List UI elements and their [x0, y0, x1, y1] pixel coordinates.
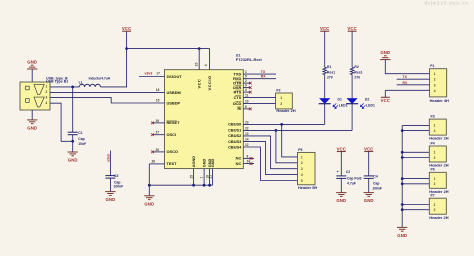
svg-text:6: 6	[245, 105, 247, 109]
wire v3v3 net at U1 3V3OUT	[139, 76, 165, 78]
wire DCD to P2 pin2	[243, 103, 275, 105]
svg-text:2: 2	[434, 78, 436, 82]
connector P7 Header 2H	[429, 198, 446, 214]
svg-text:19: 19	[156, 119, 160, 123]
connector J - USB Type B	[20, 82, 50, 110]
svg-text:GND: GND	[27, 126, 37, 131]
svg-text:Header 5H: Header 5H	[298, 185, 317, 190]
svg-text:10nF: 10nF	[78, 142, 86, 146]
svg-text:1: 1	[280, 96, 282, 100]
svg-text:GND: GND	[27, 60, 37, 65]
svg-text:GND: GND	[397, 233, 407, 238]
svg-text:25: 25	[190, 175, 194, 179]
svg-text:VCC: VCC	[337, 146, 346, 151]
svg-text:C3: C3	[114, 174, 118, 178]
svg-text:15: 15	[156, 99, 160, 103]
svg-text:R1: R1	[327, 65, 331, 69]
power VCC below P1	[381, 96, 390, 98]
svg-text:2: 2	[434, 156, 436, 160]
ground below C3	[105, 192, 115, 196]
svg-text:3: 3	[301, 167, 303, 171]
wire CBUS0 to D1	[243, 123, 324, 125]
junction ground bus	[203, 184, 206, 187]
wire VBUS to C1	[72, 87, 74, 132]
svg-text:1: 1	[46, 85, 48, 89]
svg-text:RX: RX	[403, 81, 408, 85]
svg-text:USB Type B1: USB Type B1	[46, 80, 68, 84]
junction VBUS / C1	[71, 86, 74, 89]
svg-text:26: 26	[152, 160, 156, 164]
svg-text:1: 1	[245, 70, 247, 74]
svg-text:Cap Pol3: Cap Pol3	[347, 176, 362, 180]
no-ERC mark	[250, 162, 253, 165]
junctions on right ground bus	[401, 129, 404, 132]
wire NC stub pin 8	[243, 157, 254, 159]
svg-text:5: 5	[245, 75, 247, 79]
wire RX to P1 pin3	[397, 84, 430, 86]
ground below USB connector	[27, 120, 37, 124]
svg-text:100nF: 100nF	[114, 185, 124, 189]
wire VCC rail to U1 supply pins	[127, 48, 210, 50]
svg-text:10: 10	[245, 100, 249, 104]
svg-text:L1: L1	[79, 80, 83, 84]
junction C1 / USB ground	[71, 140, 74, 143]
svg-text:P5: P5	[298, 148, 302, 152]
svg-text:P2: P2	[276, 88, 280, 92]
U1 left no-connect pin stubs 19 27 28	[153, 122, 165, 124]
svg-text:CBUS2: CBUS2	[228, 133, 242, 138]
ground below C4	[364, 193, 374, 197]
wire v3v3 to C3	[109, 151, 111, 176]
svg-text:AGND: AGND	[192, 156, 196, 167]
wire R2 to D2	[351, 75, 353, 99]
wire TEST pin stub	[149, 163, 164, 165]
svg-text:4: 4	[301, 173, 303, 177]
no-ERC mark	[249, 91, 252, 94]
no-ERC mark	[249, 108, 252, 111]
wire USB shell to ground	[31, 110, 33, 120]
wire VBUS from USB pin1 to L1	[50, 86, 79, 88]
resistor R2	[350, 67, 354, 74]
svg-text:P3: P3	[431, 114, 435, 118]
svg-text:Cap: Cap	[78, 137, 84, 141]
svg-text:VCC: VCC	[364, 146, 373, 151]
svg-text:C1: C1	[78, 131, 82, 135]
junction ground bus	[208, 184, 211, 187]
wire bus to P6 pin2	[402, 183, 429, 185]
svg-text:22: 22	[245, 126, 249, 130]
connector P4 Header 2H	[429, 146, 446, 162]
ground bottom right bus	[397, 227, 407, 231]
svg-text:2: 2	[301, 161, 303, 165]
junction CBUS0 / P5	[280, 123, 283, 126]
svg-text:v3v3: v3v3	[145, 72, 153, 76]
junction ground bus left	[148, 184, 151, 187]
svg-text:P7: P7	[431, 194, 435, 198]
svg-text:C2: C2	[346, 170, 350, 174]
svg-text:11: 11	[245, 94, 249, 98]
svg-text:16: 16	[156, 88, 160, 92]
wire CBUS1 to D2	[243, 129, 352, 131]
LED D1	[320, 98, 330, 103]
svg-text:GND: GND	[68, 158, 78, 163]
svg-text:NC: NC	[236, 161, 242, 166]
svg-text:D1: D1	[338, 97, 342, 101]
svg-text:C4: C4	[373, 174, 377, 178]
svg-text:24: 24	[247, 160, 251, 164]
no-ERC mark	[250, 157, 253, 160]
wire stub to VCC symbol	[384, 90, 386, 97]
connector P2 Header 2H	[276, 93, 293, 109]
wire VCC to P1 pin4	[385, 89, 429, 91]
wire ground to P1 pin1	[385, 60, 429, 74]
wire D1 cathode to CBUS0	[324, 104, 326, 125]
capacitor C3	[105, 176, 115, 179]
svg-text:4: 4	[204, 64, 208, 66]
connector P6 Header 2H	[429, 172, 446, 188]
svg-text:Header 4H: Header 4H	[430, 98, 449, 103]
wire RXD with RX net label	[243, 78, 276, 80]
inductor L1	[79, 84, 100, 87]
svg-text:Header 2H: Header 2H	[429, 136, 448, 141]
connector P3 Header 2H	[429, 119, 446, 135]
wire to U1 pin 20	[198, 49, 200, 70]
svg-text:21: 21	[209, 175, 213, 179]
wire R1 to D1	[324, 75, 326, 99]
svg-text:GND: GND	[203, 159, 207, 168]
svg-text:GND: GND	[380, 50, 390, 55]
wire NC stub pin 24	[243, 163, 254, 165]
U1 right pin stubs	[243, 82, 250, 84]
svg-text:Header 2H: Header 2H	[276, 108, 295, 113]
wire D2 cathode to CBUS1	[351, 104, 353, 131]
svg-text:Res1: Res1	[354, 70, 362, 74]
svg-text:7: 7	[200, 177, 204, 179]
no-ERC mark	[151, 122, 154, 125]
no-ERC mark	[249, 82, 252, 85]
connector P5 Header 5H	[298, 152, 316, 184]
wire CBUS4 to P5 pin5	[243, 147, 297, 181]
svg-text:4: 4	[434, 89, 436, 93]
svg-text:D2: D2	[365, 97, 369, 101]
svg-text:GND: GND	[144, 201, 154, 206]
capacitor C4	[364, 176, 374, 179]
svg-text:2: 2	[434, 208, 436, 212]
wire GND to USB shell pin	[31, 69, 33, 82]
wire VCC to C2	[340, 152, 342, 176]
svg-text:Header 2H: Header 2H	[429, 215, 448, 220]
wire to ground symbol below U1	[148, 185, 150, 196]
resistor R1	[323, 67, 327, 74]
svg-text:9: 9	[245, 84, 247, 88]
svg-text:v3v3: v3v3	[106, 154, 110, 162]
wire C2 to ground	[340, 178, 342, 192]
svg-text:P4: P4	[431, 141, 435, 145]
svg-text:CBUS1: CBUS1	[228, 128, 242, 133]
svg-text:20: 20	[195, 62, 199, 66]
wire VCC to R1	[324, 31, 326, 67]
svg-text:1: 1	[301, 155, 303, 159]
svg-text:2: 2	[434, 129, 436, 133]
wire VCC to C4	[368, 152, 370, 176]
svg-text:1: 1	[434, 203, 436, 207]
connector P1 Header 4H	[430, 69, 447, 97]
svg-text:VCC: VCC	[320, 26, 329, 31]
svg-text:VCC: VCC	[197, 79, 202, 89]
svg-text:8: 8	[247, 154, 249, 158]
wire to ground symbol	[72, 141, 74, 152]
svg-text:P6: P6	[431, 168, 435, 172]
svg-text:3: 3	[245, 88, 247, 92]
svg-text:3: 3	[46, 96, 48, 100]
svg-text:100nF: 100nF	[372, 186, 382, 190]
no-ERC mark	[151, 151, 154, 154]
svg-text:2: 2	[434, 182, 436, 186]
junction CBUS1 / P5	[275, 129, 278, 132]
wire TX to P1 pin2	[397, 78, 430, 80]
wire USBDM from USB pin2 to U1 pin16	[50, 92, 165, 94]
svg-text:270: 270	[327, 75, 333, 79]
no-ERC mark	[151, 133, 154, 136]
svg-text:Inductor4.7uH: Inductor4.7uH	[89, 77, 111, 81]
svg-text:1: 1	[434, 151, 436, 155]
wire bus to P7 pin2	[402, 209, 429, 211]
wire USBDP from USB pin3 to U1 pin15	[50, 98, 165, 103]
op IC U1 FT232RL body	[165, 70, 244, 169]
svg-text:OSCI: OSCI	[167, 132, 177, 137]
svg-text:FT232RL-Reel: FT232RL-Reel	[236, 57, 262, 62]
svg-text:5: 5	[301, 179, 303, 183]
svg-text:1: 1	[434, 177, 436, 181]
svg-text:CBUS0: CBUS0	[228, 122, 241, 127]
wire L1 to VCC rail	[101, 31, 127, 87]
wire bus to P4 pin1	[402, 151, 429, 153]
wire bus to P4 pin2	[402, 157, 429, 159]
svg-text:4.7uF: 4.7uF	[347, 182, 356, 186]
svg-text:TX: TX	[403, 75, 408, 79]
svg-text:4: 4	[46, 101, 48, 105]
wire bus to P6 pin1	[402, 178, 429, 180]
capacitor C2 polarized	[336, 176, 346, 179]
svg-text:VCCIO: VCCIO	[207, 75, 212, 90]
svg-text:CBUS3: CBUS3	[228, 139, 242, 144]
svg-text:R2: R2	[354, 65, 358, 69]
USB connector inner glyphs	[26, 85, 45, 107]
svg-text:GND: GND	[364, 198, 374, 203]
svg-text:VCC: VCC	[381, 98, 390, 103]
wire to U1 pin 4	[209, 49, 211, 70]
svg-text:2: 2	[46, 90, 48, 94]
wire CBUS2 to P5 pin3	[243, 136, 297, 169]
svg-text:1: 1	[434, 72, 436, 76]
wire C4 to ground	[368, 178, 370, 192]
wire bus to P3 pin1	[402, 124, 429, 126]
junction VCC rail / VCC pin	[198, 47, 201, 50]
svg-text:12: 12	[245, 143, 249, 147]
svg-text:27: 27	[156, 131, 160, 135]
svg-text:RX: RX	[261, 75, 266, 79]
U1 bottom ground pin wires AGND GND GND GND	[193, 169, 195, 186]
svg-text:3: 3	[434, 83, 436, 87]
svg-text:TEST: TEST	[167, 161, 178, 166]
ground below U1 TEST	[144, 196, 154, 200]
svg-text:OSCO: OSCO	[167, 149, 178, 154]
svg-text:VCC: VCC	[347, 26, 356, 31]
wire CTS to P2 pin1	[243, 97, 275, 99]
wire bus to P7 pin1	[402, 204, 429, 206]
no-ERC mark	[249, 86, 252, 89]
wire bus to P3 pin2	[402, 130, 429, 132]
wire TXD with TX net label	[243, 73, 276, 75]
wire VCC to R2	[351, 31, 353, 67]
wire ground bus vertical right	[401, 126, 403, 228]
svg-text:VCC: VCC	[122, 26, 131, 31]
svg-text:1: 1	[434, 124, 436, 128]
svg-text:USBDM: USBDM	[167, 90, 181, 95]
wire TEST to ground bus	[149, 164, 212, 185]
svg-text:GND: GND	[211, 159, 215, 168]
junction ground bus	[192, 184, 195, 187]
svg-text:3V3OUT: 3V3OUT	[167, 74, 183, 79]
svg-text:GND: GND	[336, 198, 346, 203]
svg-text:270: 270	[354, 75, 360, 79]
svg-text:17: 17	[156, 72, 160, 76]
svg-text:TX: TX	[261, 70, 266, 74]
svg-text:dzjm123.dzjs.cn: dzjm123.dzjs.cn	[425, 1, 469, 6]
wire CBUS0 down to P5 pin1	[282, 124, 298, 156]
svg-text:LED1: LED1	[366, 103, 375, 107]
svg-text:CBUS4: CBUS4	[228, 144, 242, 149]
wire CBUS1 down to P5 pin2	[276, 130, 298, 162]
svg-text:P1: P1	[430, 64, 434, 68]
wire CBUS3 to P5 pin4	[243, 142, 297, 175]
wire C3 to ground	[109, 178, 111, 192]
wire USB pin4 to ground net	[50, 103, 73, 141]
svg-text:23: 23	[245, 120, 249, 124]
ground below C1	[68, 152, 78, 156]
svg-text:Res1: Res1	[327, 70, 335, 74]
svg-text:2: 2	[245, 79, 247, 83]
svg-text:GND: GND	[105, 197, 115, 202]
ground below C2	[336, 193, 346, 197]
svg-text:14: 14	[245, 138, 249, 142]
junction VCC rail	[125, 47, 128, 50]
svg-text:13: 13	[245, 132, 249, 136]
svg-text:USBDP: USBDP	[167, 100, 181, 105]
capacitor C1	[68, 132, 78, 135]
svg-text:28: 28	[156, 148, 160, 152]
wire C1 to ground junction	[72, 135, 74, 142]
svg-text:Cap: Cap	[373, 182, 379, 186]
LED D2	[347, 98, 357, 103]
svg-text:2: 2	[280, 102, 282, 106]
